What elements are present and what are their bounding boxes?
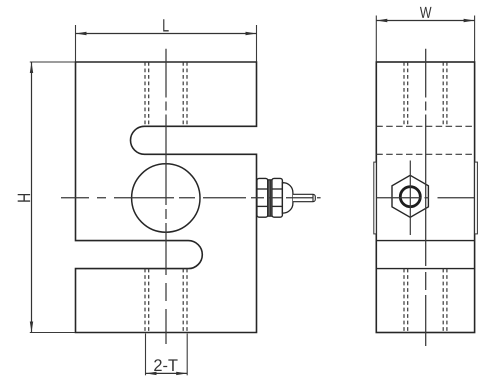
side view: left mounting plate (374, 162, 377, 234)
side view: connector vertical center line (409, 161, 411, 236)
dimension L: label (163, 19, 169, 31)
dimension L: dimension line with arrows (76, 32, 257, 35)
side view: top threaded hole hidden lines (404, 62, 447, 126)
front view: bottom threaded hole hidden lines (145, 269, 187, 333)
connector: outer hex nut (272, 178, 283, 217)
dimension W: label (420, 7, 432, 18)
connector: inner hex nut (257, 178, 268, 217)
dimension L: extension lines (76, 25, 257, 62)
side view: connector hex nut front (392, 175, 428, 217)
dimension 2-T: dimension line with arrows (146, 372, 188, 375)
side view: bottom threaded hole hidden lines (404, 269, 447, 333)
dimension W: dimension line with arrows (376, 19, 474, 22)
dimension 2-T: extension lines (146, 334, 188, 376)
front view: horizontal center line (61, 197, 321, 199)
side view: connector cable entry circle (400, 187, 420, 207)
side view: upper slot hidden lines (376, 126, 474, 154)
front view: vertical center line (165, 49, 167, 344)
front view: center hole circle (132, 164, 200, 232)
front view: S-beam body outline (76, 62, 257, 333)
side view: body outline (376, 62, 474, 333)
dimension H: extension lines (30, 62, 75, 333)
dimension H: dimension line with arrows (30, 62, 33, 333)
side view: right mounting plate (475, 162, 478, 234)
connector: knurled washer (268, 180, 272, 216)
side view: horizontal center line (377, 197, 475, 199)
side view: lower slot edges (376, 241, 474, 269)
side view: vertical center line (425, 49, 427, 346)
connector: cable (293, 194, 315, 201)
dimension W: extension lines (376, 16, 474, 62)
dimension H: label (18, 194, 30, 202)
front view: top threaded hole hidden lines (145, 62, 187, 126)
dimension 2-T: label (154, 359, 177, 371)
connector: dome cap (282, 183, 293, 213)
